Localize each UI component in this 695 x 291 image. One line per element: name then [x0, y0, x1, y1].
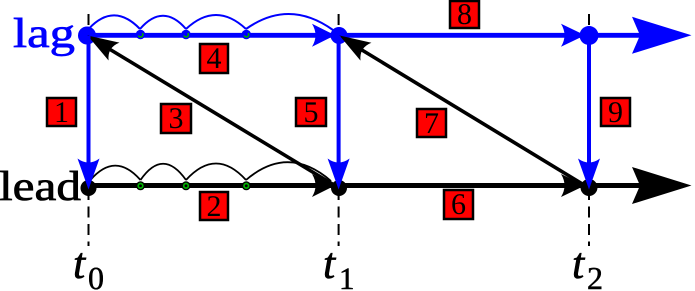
svg-text:2: 2: [207, 190, 222, 223]
label box 8: [450, 0, 479, 31]
dashed line t2: [588, 14, 590, 246]
node lead t0: [81, 180, 97, 196]
label t1: [323, 239, 355, 291]
arrow 7 (lead t2 to lag t1): [334, 27, 589, 188]
lag arc junction 2: [181, 30, 190, 39]
lag arrowhead mid t1 (arrow 4 head): [312, 24, 335, 47]
svg-text:1: 1: [339, 261, 355, 291]
svg-text:1: 1: [54, 96, 69, 129]
label lead: [0, 164, 81, 210]
dashed line t1: [338, 14, 340, 246]
svg-text:3: 3: [169, 102, 184, 135]
label t0: [73, 239, 104, 291]
svg-text:lag: lag: [13, 11, 75, 57]
node lead t1: [331, 180, 347, 196]
lag timeline: [87, 33, 650, 38]
arrow 1 (lag t0 to lead t0): [78, 36, 100, 190]
label box 4: [200, 42, 228, 75]
label box 5: [296, 96, 326, 129]
label box 6: [444, 188, 473, 221]
svg-text:lead: lead: [0, 164, 81, 210]
lag arc junction 3: [242, 30, 251, 39]
arrow 3 (lead t1 to lag t0): [82, 27, 339, 188]
svg-text:7: 7: [424, 107, 439, 140]
lead arc junction 2: [182, 181, 191, 190]
lead timeline arcs: [90, 162, 331, 181]
lag timeline end arrowhead: [632, 17, 692, 54]
svg-text:t: t: [572, 239, 586, 288]
label t2: [572, 239, 603, 291]
label box 7: [417, 107, 446, 140]
lead timeline: [88, 183, 650, 188]
lead arrowhead mid t1 (arrow 2 head): [312, 174, 335, 197]
node lag t0: [78, 27, 96, 45]
label lag: [13, 11, 75, 57]
svg-text:6: 6: [451, 188, 466, 221]
lead arrowhead mid t2 (arrow 6 head): [561, 174, 585, 197]
lead arc junction 3: [242, 181, 251, 190]
node lead t2: [581, 179, 598, 196]
lead timeline end arrowhead: [632, 167, 692, 204]
lag timeline arcs: [89, 14, 333, 30]
svg-text:0: 0: [88, 260, 104, 291]
lag arc junction 1: [136, 30, 145, 39]
label box 9: [601, 96, 630, 129]
svg-text:2: 2: [587, 260, 603, 291]
dashed line t0: [88, 14, 90, 246]
lag arrowhead mid t2 (arrow 8 head): [561, 24, 585, 47]
svg-text:9: 9: [608, 96, 623, 129]
label box 3: [161, 102, 191, 135]
svg-text:t: t: [73, 239, 87, 288]
arrow 9 (lag t2 to lead t2): [578, 36, 600, 190]
node lag t1: [331, 27, 348, 44]
arrow 5 (lag t1 to lead t1): [328, 36, 350, 190]
lead arc junction 1: [136, 181, 145, 190]
svg-text:8: 8: [457, 0, 472, 31]
node lag t2: [580, 26, 599, 45]
svg-text:5: 5: [304, 96, 319, 129]
svg-text:4: 4: [207, 42, 222, 75]
label box 2: [200, 190, 228, 223]
svg-text:t: t: [323, 239, 337, 288]
label box 1: [47, 96, 76, 129]
